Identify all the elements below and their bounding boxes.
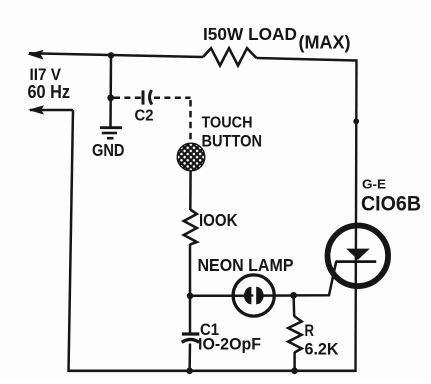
node: R bottom junction [291, 368, 298, 375]
arrow: AC line 2 terminal [28, 105, 44, 114]
wire: neon lamp to R junction [262, 294, 295, 297]
svg-text:TOUCH: TOUCH [202, 115, 253, 132]
resistor R 6.2K (zigzag) [288, 316, 301, 353]
SCR U1 G-E C106B [328, 226, 389, 287]
wire: button to 100K [189, 170, 192, 210]
svg-text:IO-2OpF: IO-2OpF [198, 335, 261, 353]
wire: lower-left horizontal to arrow [30, 109, 73, 112]
node: junction of GND branch on top wire [108, 52, 114, 58]
wire: 100K to lamp junction and on to C1 [189, 244, 192, 335]
resistor 100K (zigzag) [184, 210, 197, 245]
wire: R top lead [292, 295, 295, 316]
capacitor C1 [182, 334, 200, 342]
resistor 150W LOAD (zigzag) [203, 48, 257, 65]
wire: junction to neon lamp [190, 295, 246, 298]
svg-text:G-E: G-E [362, 176, 386, 191]
wire: right vertical (SCR anode/cathode rail) [356, 59, 357, 372]
wire: gate lead to SCR [294, 262, 337, 296]
touch button (mesh ball) [177, 143, 205, 171]
node: junction of C2 on GND branch [107, 94, 114, 101]
svg-text:I50W LOAD: I50W LOAD [203, 24, 297, 44]
arrow: AC line 1 terminal [28, 50, 44, 60]
wire: dashed lead from C2 to corner [154, 97, 191, 100]
node: junction at neon lamp branch [187, 293, 194, 300]
wire: R bottom lead [293, 352, 296, 371]
wire: vertical GND branch [109, 55, 112, 126]
svg-text:BUTTON: BUTTON [202, 131, 263, 150]
svg-text:CIO6B: CIO6B [361, 193, 421, 216]
wire: left vertical [69, 110, 74, 372]
svg-text:NEON LAMP: NEON LAMP [198, 255, 294, 275]
wire: dashed lead from GND branch to C2 [114, 97, 141, 100]
wire: top line from load resistor to right corner [257, 58, 357, 61]
wire: top line from left arrow to load resistor [29, 53, 203, 57]
neon lamp [233, 275, 274, 316]
svg-text:R: R [305, 322, 315, 340]
svg-text:(MAX): (MAX) [299, 33, 351, 53]
svg-text:GND: GND [92, 140, 125, 160]
svg-text:6.2K: 6.2K [305, 340, 339, 359]
svg-text:C2: C2 [135, 108, 154, 125]
svg-text:60 Hz: 60 Hz [28, 81, 71, 102]
node: small dot on right rail [353, 118, 359, 124]
wire: dashed vertical down to touch button [189, 100, 192, 143]
wire: C1 to bottom line [188, 344, 191, 372]
svg-text:IOOK: IOOK [199, 210, 238, 230]
capacitor C2 [143, 90, 152, 105]
ground GND [100, 128, 122, 139]
node: junction lamp / R / gate [290, 292, 297, 299]
wire: bottom return line [69, 369, 356, 372]
node: C1 bottom junction [186, 368, 193, 375]
